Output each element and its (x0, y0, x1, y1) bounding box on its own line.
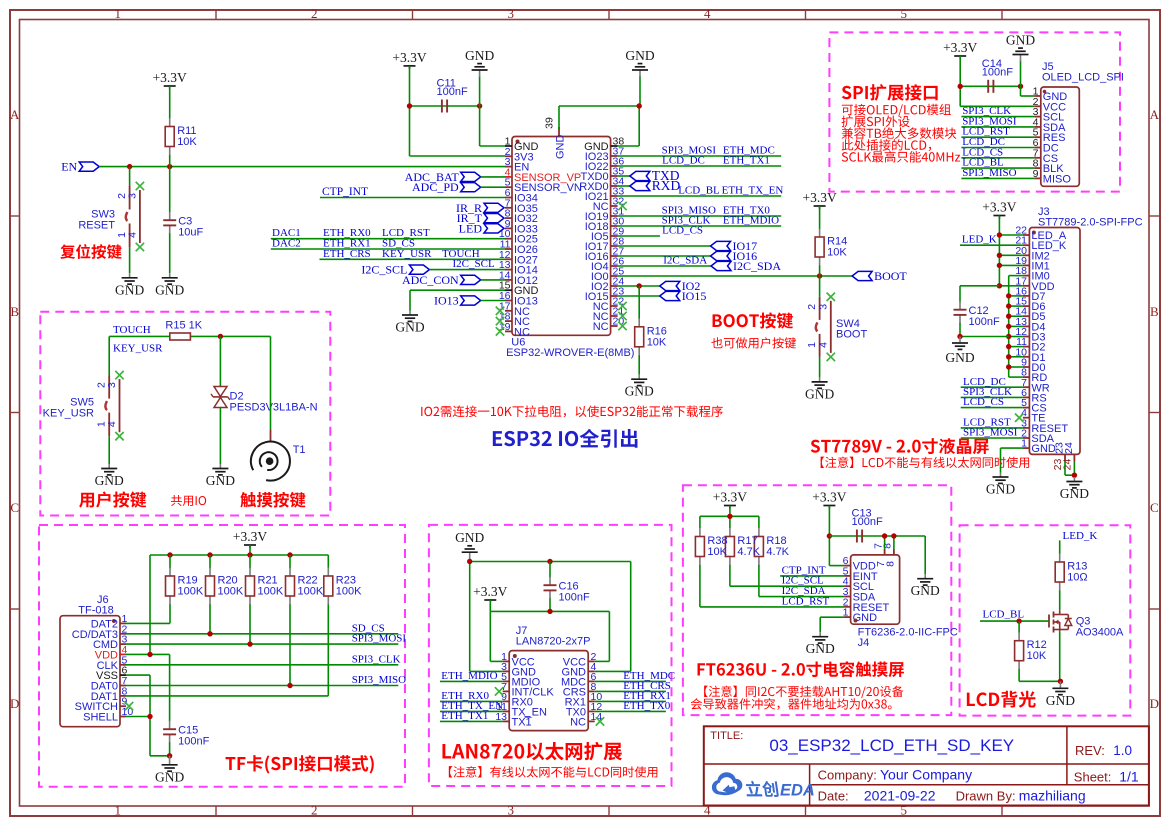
svg-text:I2C_SCL: I2C_SCL (361, 263, 407, 277)
svg-text:2: 2 (311, 803, 318, 818)
junction (957, 334, 962, 339)
svg-text:+3.3V: +3.3V (233, 529, 267, 544)
resistor R38 10K (699, 528, 701, 536)
svg-text:FT6236-2.0-IIC-FPC: FT6236-2.0-IIC-FPC (858, 627, 958, 639)
touch pad T1 (270, 336, 272, 430)
resistor R13 10Ω (1059, 553, 1061, 554)
svg-text:I2C_SCL: I2C_SCL (453, 258, 495, 270)
label LAN8720以太网扩展 (442, 742, 622, 760)
svg-text:I2C_SDA: I2C_SDA (663, 255, 707, 267)
ground (D2) (219, 464, 221, 469)
wire LCD_DC/ETH_TX1 (618, 165, 782, 167)
svg-text:LCD_RST: LCD_RST (782, 595, 830, 607)
note SPI line (842, 151, 960, 163)
wire FT C13 net (829, 535, 925, 537)
label LCD背光 (967, 691, 1036, 708)
wire I2C_SDA (FT) (759, 596, 844, 598)
label FT6236U触摸屏 (698, 661, 904, 677)
power +3.3V (FT left) (724, 505, 736, 507)
svg-text:1: 1 (806, 342, 818, 348)
wire IO2 net (618, 285, 660, 287)
svg-text:10K: 10K (177, 136, 197, 148)
label TF卡(SPI接口模式) (226, 755, 374, 773)
power +3.3V (R14) (814, 205, 826, 207)
resistor R14 10K (819, 228, 821, 229)
svg-text:RXD: RXD (652, 178, 681, 193)
wire EN net (99, 166, 505, 168)
label SPI扩展接口 (842, 84, 938, 101)
resistor R11 10K (169, 117, 171, 119)
svg-text:100nF: 100nF (852, 516, 883, 528)
label BOOT按键 (713, 312, 793, 328)
svg-text:4: 4 (126, 232, 138, 238)
junction (218, 334, 223, 339)
svg-text:10Ω: 10Ω (1067, 572, 1087, 584)
wire ETH_RX0 (LAN) (440, 700, 503, 702)
svg-text:AO3400A: AO3400A (1076, 627, 1124, 639)
note SPI line (842, 104, 951, 117)
svg-text:SPI3_MOSI: SPI3_MOSI (352, 633, 407, 645)
svg-text:8: 8 (882, 543, 894, 549)
svg-text:B: B (10, 304, 19, 319)
junction (127, 164, 132, 169)
wire J3 pins23/24 (1064, 461, 1066, 475)
ground (J5) (1020, 61, 1022, 87)
wire LCD_DC (J5) (961, 147, 1034, 149)
svg-text:GND: GND (95, 473, 124, 488)
svg-text:NC: NC (593, 321, 609, 333)
wire LCD_CS (J3) (961, 407, 1023, 409)
wire IO0/BOOT net (618, 275, 853, 277)
svg-text:2021-09-22: 2021-09-22 (864, 788, 936, 804)
net flag IO13 (461, 296, 481, 305)
ground (C3) (169, 273, 171, 278)
svg-text:1/1: 1/1 (1119, 768, 1139, 784)
junction (637, 283, 642, 288)
wire DAC2/ETH_RX1/SD_CS (271, 248, 505, 250)
wire ETH_MDC (LAN) (595, 680, 666, 682)
svg-text:EN: EN (61, 160, 77, 174)
power +3.3V (TF) (244, 544, 256, 546)
power +3.3V (J3) (993, 215, 1005, 217)
label 触摸按键 (240, 492, 305, 508)
svg-text:2: 2 (311, 6, 318, 21)
wire SPI3_CLK (J3) (961, 396, 1023, 398)
connector J5 OLED_LCD_SPI (1041, 87, 1080, 186)
svg-text:LCD_CS: LCD_CS (662, 225, 703, 237)
svg-text:I2C_SDA: I2C_SDA (733, 259, 781, 273)
svg-text:5: 5 (901, 6, 908, 21)
wire LCD_DC (J3) (961, 386, 1023, 388)
ground (LAN top) (469, 558, 471, 561)
wire FT 3V3 bus (700, 515, 759, 517)
capacitor C11 (441, 100, 443, 113)
svg-text:OLED_LCD_SPI: OLED_LCD_SPI (1042, 72, 1124, 84)
svg-text:Date:: Date: (818, 789, 849, 804)
svg-text:10uF: 10uF (178, 226, 203, 238)
net flag TXD (618, 175, 630, 177)
capacitor C13 100nF (856, 530, 858, 543)
svg-text:39: 39 (544, 117, 556, 129)
wire J5 GND net (1020, 86, 1022, 96)
svg-text:ESP32-WROVER-E(8MB): ESP32-WROVER-E(8MB) (506, 347, 634, 359)
resistor R20 100K (209, 555, 211, 568)
svg-text:D: D (1150, 696, 1159, 711)
svg-text:+3.3V: +3.3V (982, 200, 1016, 215)
svg-text:3: 3 (508, 6, 515, 21)
ground (pin1 branch) (479, 76, 481, 106)
capacitor C3 10uF (169, 167, 171, 210)
svg-text:LED_K: LED_K (962, 234, 997, 246)
switch SW5 KEY_USR (108, 336, 110, 375)
wire Q3 source (1059, 632, 1061, 682)
svg-text:3: 3 (106, 382, 118, 388)
diode D2 PESD3V3L1BA-N (219, 336, 221, 385)
svg-text:100K: 100K (178, 586, 204, 598)
capacitor C12 100nF (959, 300, 961, 303)
net flag IR_T (484, 214, 504, 223)
wire ETH_TX0 (LAN) (595, 710, 666, 712)
svg-text:GND: GND (555, 135, 567, 160)
svg-text:3: 3 (126, 193, 138, 199)
note IO2 pulldown (421, 405, 723, 417)
svg-text:3: 3 (508, 803, 515, 818)
wire C11 top (410, 105, 480, 107)
svg-text:MISO: MISO (1043, 173, 1072, 185)
dashed box SPI expansion (829, 32, 1120, 191)
wire J5 VCC net (960, 85, 1020, 87)
wire SPI3_CLK/ETH_MDIO (618, 225, 782, 227)
ground (U6 pin15) (409, 311, 411, 316)
wire CTP_INT (FT) (780, 575, 844, 577)
label 用户按键 (79, 491, 146, 507)
svg-text:10K: 10K (707, 546, 727, 558)
wire ETH_RX1 (LAN) (595, 700, 666, 702)
ground (TF) (169, 756, 171, 765)
switch SW3 RESET (129, 167, 131, 186)
label 也可做用户按键 (711, 337, 796, 348)
wire LAN VCC net (490, 610, 609, 612)
ground (FT right) (924, 574, 926, 579)
svg-text:SHELL: SHELL (83, 712, 118, 724)
wire DAC1/ETH_RX0/LCD_RST (271, 238, 505, 240)
capacitor C14 100nF (987, 80, 989, 93)
wire LCD_RST (FT) (700, 606, 844, 608)
svg-text:1: 1 (115, 6, 122, 21)
svg-text:4: 4 (106, 421, 118, 427)
svg-text:BOOT: BOOT (874, 269, 907, 283)
capacitor C15 100nF (169, 716, 171, 721)
ground (SW4) (819, 377, 821, 382)
net flag I2C_SDA (618, 265, 711, 267)
svg-text:10K: 10K (647, 336, 667, 348)
svg-text:+3.3V: +3.3V (713, 490, 747, 505)
wire LCD_CS (J5) (961, 157, 1034, 159)
svg-text:2: 2 (806, 304, 818, 310)
resistor R12 10K (1018, 621, 1020, 633)
svg-text:GND: GND (805, 386, 834, 401)
svg-text:A: A (10, 107, 20, 122)
wire DAT2-R19 (126, 622, 170, 624)
dashed box LCD backlight (960, 525, 1131, 715)
junction (817, 273, 822, 278)
svg-text:GND: GND (625, 48, 654, 63)
svg-text:D: D (10, 696, 19, 711)
svg-text:100nF: 100nF (437, 86, 468, 98)
label 复位按键 (60, 244, 121, 259)
wire J3 +3.3V branches (999, 234, 1023, 236)
note FT6236 line2 (691, 698, 892, 710)
svg-text:100K: 100K (336, 586, 362, 598)
svg-text:B: B (1150, 304, 1159, 319)
svg-text:1.0: 1.0 (1113, 743, 1132, 758)
svg-text:10K: 10K (1027, 650, 1047, 662)
wire SPI3_MOSI (J5) (961, 126, 1034, 128)
net flag RXD (618, 185, 630, 187)
svg-text:100K: 100K (298, 586, 324, 598)
svg-text:KEY_USR: KEY_USR (382, 248, 432, 260)
svg-text:ADC_PD: ADC_PD (412, 180, 459, 194)
svg-text:+3.3V: +3.3V (473, 584, 507, 599)
svg-text:GND: GND (455, 530, 484, 545)
net flag IO2 (660, 281, 680, 290)
svg-text:GND: GND (986, 482, 1015, 497)
wire ETH_TX_EN (LAN) (440, 710, 503, 712)
junction (467, 559, 472, 564)
resistor R21 100K (249, 555, 251, 568)
IC U6 ESP32-WROVER-E(8MB) (512, 137, 611, 336)
svg-text:C: C (1150, 500, 1159, 515)
svg-text:J4: J4 (858, 637, 870, 649)
resistor R15 1K (170, 333, 191, 340)
net flag IO15 (618, 295, 660, 297)
svg-text:KEY_USR: KEY_USR (43, 408, 94, 420)
svg-text:+3.3V: +3.3V (812, 490, 846, 505)
junction (247, 641, 252, 646)
svg-text:LAN8720-2x7P: LAN8720-2x7P (516, 636, 591, 648)
junction (827, 533, 832, 538)
note FT6236 line1 (704, 686, 903, 699)
svg-text:+3.3V: +3.3V (943, 40, 977, 55)
svg-text:GND: GND (911, 583, 940, 598)
svg-text:LCD_CS: LCD_CS (963, 396, 1004, 408)
wire FT GND (820, 616, 844, 618)
wire LCD_RST (J3) (961, 427, 1023, 429)
svg-text:ETH_TX1: ETH_TX1 (441, 710, 488, 722)
junction (147, 652, 152, 657)
power +3.3V (FT right) (823, 505, 835, 507)
svg-text:DAC2: DAC2 (272, 238, 301, 250)
svg-text:T1: T1 (293, 444, 306, 456)
resistor R16 10K (638, 286, 640, 318)
svg-text:GND: GND (1006, 33, 1035, 48)
svg-text:4.7K: 4.7K (766, 546, 789, 558)
dashed box FT6236 (683, 485, 951, 715)
label ESP32 IO全引出 (493, 429, 638, 448)
no-connect INT/CLK (495, 687, 503, 695)
wire VDD net (TF) (126, 653, 170, 655)
svg-text:KEY_USR: KEY_USR (113, 342, 163, 354)
wire SPI3_CLK net (TF) (126, 664, 398, 666)
wire LAN top GND net (470, 561, 631, 563)
ground (Q3) (1059, 681, 1061, 688)
dashed box user keys (40, 312, 330, 516)
svg-text:ETH_TX1: ETH_TX1 (723, 155, 770, 167)
wire pin15 GND (410, 289, 505, 291)
junction (882, 533, 887, 538)
svg-text:SPI3_MOSI: SPI3_MOSI (963, 427, 1018, 439)
junction (1006, 293, 1011, 298)
junction (997, 232, 1002, 237)
wire ETH_TX1 (LAN) (440, 720, 503, 722)
note ST7789V (821, 457, 1029, 468)
junction (287, 683, 292, 688)
resistor R23 100K (327, 555, 329, 568)
svg-text:Drawn By:: Drawn By: (956, 789, 1016, 804)
svg-text:TITLE:: TITLE: (710, 730, 743, 742)
wire LCD_BL (J5) (961, 167, 1034, 169)
resistor R18 4.7K (758, 528, 760, 536)
wire J3 data tie (1009, 275, 1023, 277)
svg-text:ETH_MDIO: ETH_MDIO (441, 670, 497, 682)
junction (547, 609, 552, 614)
power +3.3V (J5) (954, 55, 966, 57)
svg-text:mazhiliang: mazhiliang (1019, 788, 1086, 804)
ground (FT pin1) (819, 632, 821, 637)
wire ETH_CRS (LAN) (595, 690, 666, 692)
junction (1058, 679, 1063, 684)
svg-text:SPI3_CLK: SPI3_CLK (352, 653, 401, 665)
net flag ADC_BAT (461, 172, 481, 181)
svg-text:SPI3_MISO: SPI3_MISO (352, 674, 406, 686)
resistor R22 100K (289, 555, 291, 568)
svg-text:A: A (1150, 107, 1160, 122)
junction (207, 631, 212, 636)
junction (167, 552, 172, 557)
power +3.3V (R11) (164, 85, 176, 87)
svg-text:100nF: 100nF (969, 316, 1000, 328)
wire C12 net (960, 285, 999, 287)
svg-text:GND: GND (806, 641, 835, 656)
net flag IO17 (618, 245, 711, 247)
svg-text:Your Company: Your Company (880, 766, 972, 782)
ground (SW3) (129, 273, 131, 278)
net flag IR_R (484, 203, 504, 212)
junction (727, 514, 732, 519)
svg-text:GND: GND (155, 282, 184, 297)
connector J7 LAN8720-2x7P (509, 651, 588, 731)
no-connect TE (1015, 414, 1023, 422)
svg-text:+3.3V: +3.3V (153, 70, 187, 85)
svg-text:GND: GND (1046, 693, 1075, 708)
dashed box TF card (39, 525, 405, 787)
svg-text:LCD_DC: LCD_DC (662, 155, 705, 167)
wire SPI3_MOSI net (TF) (126, 643, 398, 645)
svg-text:4.7K: 4.7K (737, 546, 760, 558)
svg-text:GND: GND (1060, 486, 1089, 501)
note SPI line (842, 116, 910, 128)
wire VSS (126, 674, 150, 676)
net flag BOOT (852, 271, 872, 280)
svg-text:GND: GND (155, 769, 184, 784)
junction (167, 753, 172, 758)
svg-text:IO15: IO15 (682, 289, 707, 303)
junction (1072, 473, 1077, 478)
wire LCD_BL/ETH_TX_EN (618, 195, 782, 197)
junction (958, 84, 963, 89)
svg-text:LED: LED (459, 221, 483, 235)
svg-text:10K: 10K (827, 247, 847, 259)
note SPI line (842, 127, 957, 139)
power +3.3V (LAN) (484, 599, 496, 601)
net flag EN (79, 162, 99, 171)
wire LCD_RST (J5) (961, 136, 1034, 138)
svg-text:GND: GND (115, 282, 144, 297)
wire I2C_SCL (FT) (730, 585, 844, 587)
svg-text:1: 1 (115, 803, 122, 818)
label ST7789V液晶屏 (811, 438, 989, 454)
power +3.3V (C11) (404, 65, 416, 67)
svg-text:100K: 100K (258, 586, 284, 598)
ground (J3 shell) (1073, 477, 1075, 482)
svg-text:GND: GND (625, 384, 654, 399)
no-connect SWITCH pin (125, 702, 133, 710)
wire TOUCH net (109, 335, 169, 337)
connector J3 ST7789-2.0-SPI-FPC (1029, 228, 1080, 455)
svg-text:100K: 100K (218, 586, 244, 598)
svg-text:R15 1K: R15 1K (165, 320, 202, 332)
svg-text:TX1: TX1 (512, 716, 532, 728)
wire +3.3V bus TF (150, 554, 328, 556)
wire SPI3_MISO/ETH_TX0 (618, 215, 782, 217)
capacitor C16 100nF (549, 562, 551, 578)
svg-text:100nF: 100nF (559, 591, 590, 603)
wire ETH_MDIO (440, 680, 503, 682)
ground (J3 pin1) (1000, 473, 1002, 478)
wire J3 GND (1001, 447, 1023, 449)
ground (C12) (959, 337, 961, 344)
wire SPI3_MOSI (J3) (961, 437, 1023, 439)
wire SPI3_MOSI/ETH_MDC (618, 155, 782, 157)
svg-text:C: C (10, 500, 19, 515)
svg-text:24: 24 (1062, 459, 1074, 471)
note SPI line (842, 139, 931, 151)
svg-text:NC: NC (570, 716, 586, 728)
wire LED_K (J3) (960, 244, 1023, 246)
ground (U6 top right) (639, 76, 641, 106)
ground (SW5) (108, 464, 110, 469)
svg-text:PESD3V3L1BA-N: PESD3V3L1BA-N (230, 402, 318, 414)
svg-text:LED_K: LED_K (1063, 530, 1098, 542)
logo 立创EDA (712, 772, 742, 795)
svg-text:TOUCH: TOUCH (113, 324, 151, 336)
svg-text:03_ESP32_LCD_ETH_SD_KEY: 03_ESP32_LCD_ETH_SD_KEY (769, 736, 1014, 755)
svg-text:RESET: RESET (78, 220, 115, 232)
svg-text:GND: GND (395, 320, 424, 335)
title block (704, 726, 1149, 805)
svg-text:4: 4 (704, 6, 711, 21)
svg-text:4: 4 (817, 342, 829, 348)
svg-text:24: 24 (1063, 442, 1075, 454)
wire LCD_CS (618, 235, 660, 237)
svg-text:GND: GND (206, 473, 235, 488)
svg-text:ETH_MDIO: ETH_MDIO (723, 215, 779, 227)
label 共用IO (171, 495, 206, 506)
connector J4 FT6236-2.0-IIC-FPC (851, 555, 900, 624)
svg-text:IO13: IO13 (434, 294, 459, 308)
net flag ADC_CON (461, 275, 481, 284)
junction (637, 103, 642, 108)
